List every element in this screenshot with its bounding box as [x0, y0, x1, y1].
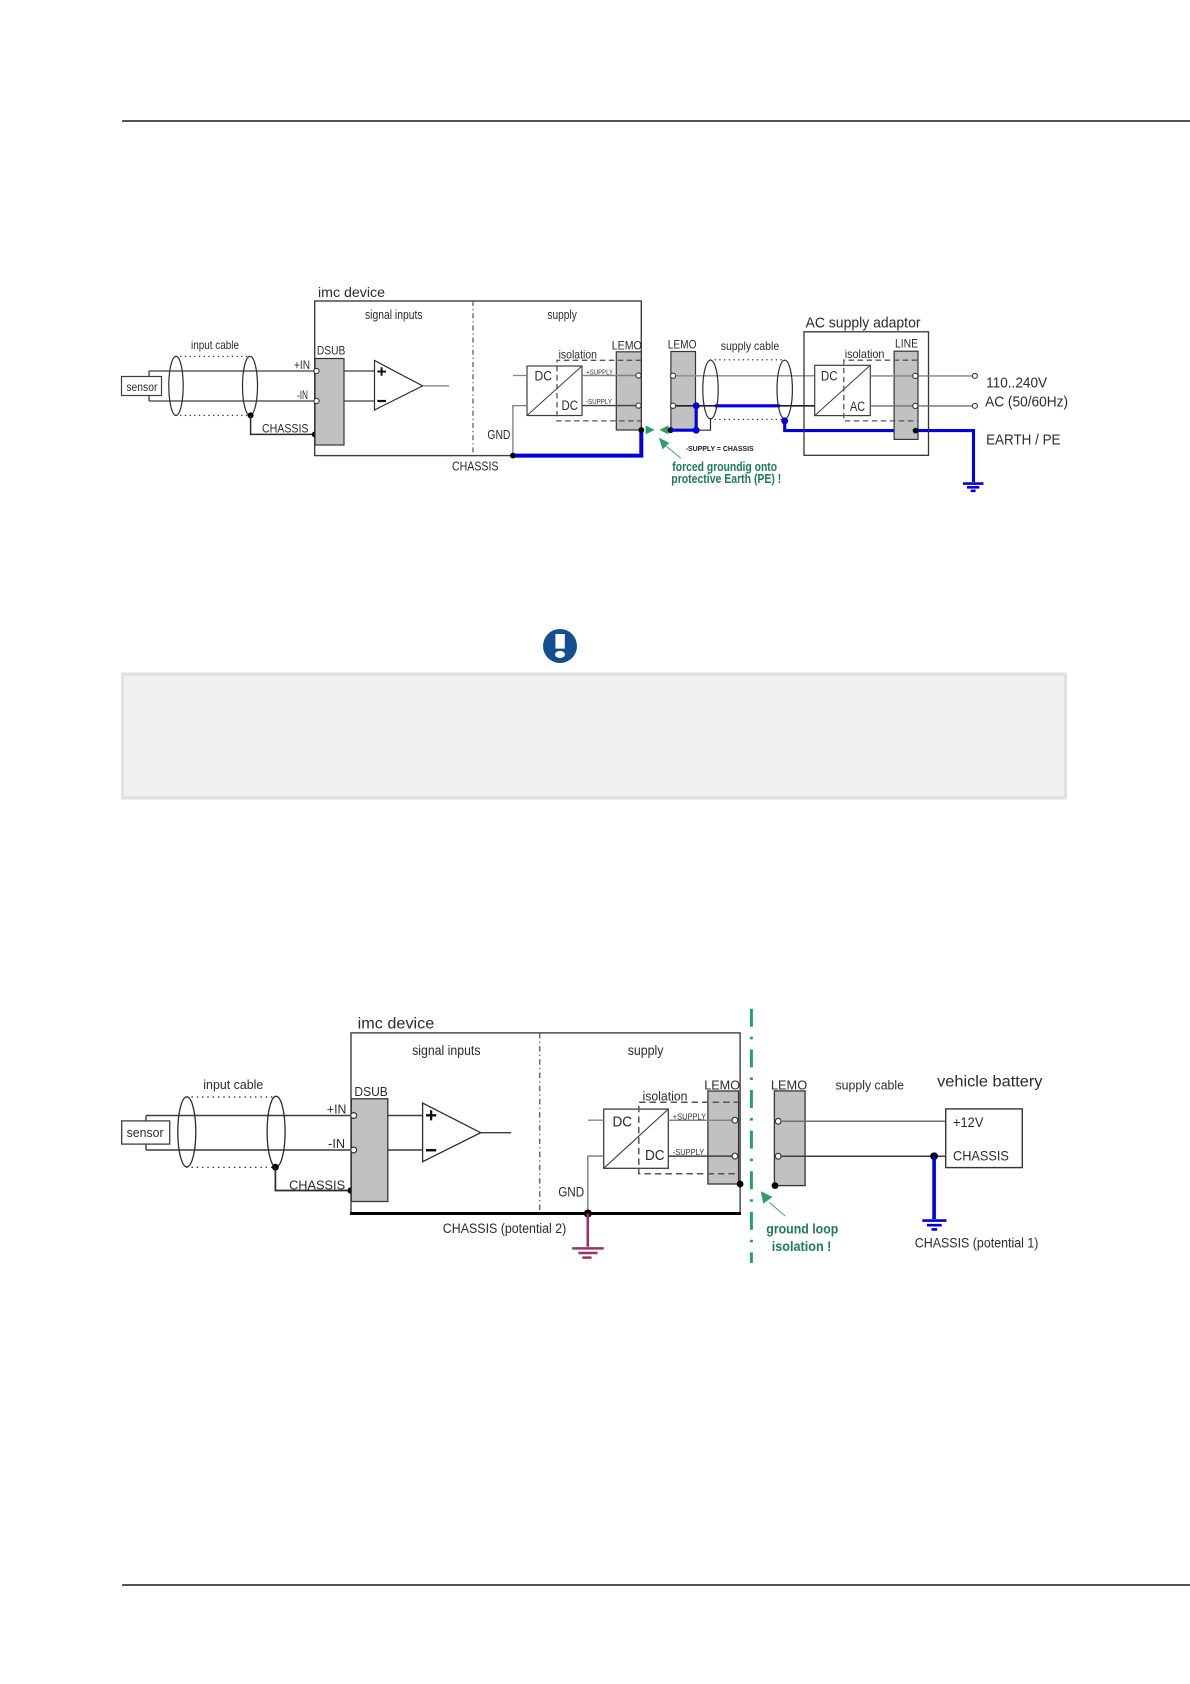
wire +IN to opamp (2) [388, 1115, 423, 1117]
supply cable dotted bottom [711, 418, 785, 420]
AC-DC converter [815, 365, 871, 415]
DSUB connector (2) [351, 1099, 388, 1202]
op-amp output wire [423, 385, 449, 387]
op-amp [375, 361, 423, 411]
svg-text:isolation: isolation [845, 347, 885, 361]
node at DSUB chassis (2) [348, 1187, 355, 1194]
pin +IN [314, 368, 319, 373]
node at LEMO cable bottom [668, 427, 674, 433]
svg-text:AC supply adaptor: AC supply adaptor [806, 316, 921, 332]
wire cable bottom [673, 405, 815, 407]
green arrow left [659, 425, 668, 434]
pin +IN (2) [351, 1113, 357, 1119]
terminal AC bottom [972, 403, 977, 408]
svg-text:GND: GND [558, 1184, 584, 1199]
LEMO connector (device 2) [708, 1091, 739, 1184]
wire -IN to opamp (2) [388, 1149, 423, 1151]
svg-text:CHASSIS: CHASSIS [953, 1148, 1009, 1164]
wire AC line bottom [870, 405, 975, 407]
terminal AC top [972, 373, 977, 378]
LEMO connector (cable) [671, 352, 696, 431]
AC-DC diagonal [815, 365, 871, 415]
svg-text:sensor: sensor [127, 1125, 165, 1140]
AC supply adaptor box [804, 332, 929, 456]
wire +SUPPLY [582, 375, 639, 377]
svg-text:EARTH / PE: EARTH / PE [986, 432, 1061, 448]
svg-text:CHASSIS (potential 1): CHASSIS (potential 1) [915, 1234, 1039, 1250]
svg-text:+SUPPLY: +SUPPLY [586, 367, 613, 376]
node on chassis wire (2) [930, 1152, 938, 1160]
pin LINE top [913, 373, 918, 378]
cable dotted top (2) [187, 1096, 276, 1098]
svg-text:LINE: LINE [895, 339, 918, 351]
pin -IN [314, 398, 319, 403]
svg-text:input cable: input cable [191, 338, 239, 352]
blue -SUPPLY segment in cable [715, 404, 780, 407]
pin -SUPPLY (2) [732, 1153, 738, 1159]
svg-text:signal inputs: signal inputs [365, 308, 423, 322]
svg-text:-IN: -IN [297, 390, 308, 402]
svg-text:-IN: -IN [328, 1136, 345, 1151]
svg-text:AC (50/60Hz): AC (50/60Hz) [985, 395, 1068, 411]
shield node [248, 412, 254, 418]
supply cable ellipse right [777, 360, 792, 419]
svg-text:110..240V: 110..240V [986, 376, 1047, 392]
svg-text:CHASSIS (potential 2): CHASSIS (potential 2) [443, 1221, 567, 1236]
blue earth path from cable [785, 421, 974, 482]
shield node (2) [272, 1164, 279, 1171]
op-amp (2) [423, 1103, 481, 1162]
svg-text:supply: supply [628, 1043, 664, 1058]
cable ellipse right (2) [267, 1096, 285, 1167]
svg-text:+SUPPLY: +SUPPLY [673, 1113, 707, 1122]
op-amp plus sign (2) [426, 1110, 436, 1120]
isolation dashed box (2) [639, 1102, 740, 1174]
wire +SUPPLY (2) [668, 1119, 735, 1121]
imc device box [315, 301, 642, 456]
pin LINE bottom [913, 403, 918, 408]
svg-text:supply: supply [547, 308, 577, 322]
DC input stub [513, 375, 527, 377]
svg-text:supply cable: supply cable [721, 339, 780, 353]
GND wire (2) [588, 1156, 604, 1213]
green isolation dash-dot line [750, 1009, 753, 1263]
pin -SUPPLY [636, 403, 641, 408]
isolation dashed box [557, 360, 641, 421]
svg-text:-SUPPLY = CHASSIS: -SUPPLY = CHASSIS [686, 444, 754, 453]
earth symbol (potential 2, magenta) [586, 1214, 589, 1247]
cable shield dotted top [176, 355, 250, 357]
blue chassis path [513, 430, 641, 456]
node at GND chassis [510, 453, 516, 459]
svg-text:supply cable: supply cable [836, 1077, 905, 1092]
svg-text:DC: DC [645, 1148, 665, 1164]
op-amp plus sign [377, 367, 386, 376]
cable dotted bottom (2) [187, 1166, 276, 1168]
op-amp minus sign [377, 400, 386, 402]
DC-DC converter (2) [604, 1109, 669, 1168]
pin cable - [671, 403, 676, 408]
wire -SUPPLY [582, 405, 639, 407]
green annotation arrow (2) [761, 1191, 773, 1204]
supply cable ellipse left [703, 360, 718, 419]
svg-text:CHASSIS: CHASSIS [262, 424, 309, 436]
sensor box (2) [122, 1121, 170, 1144]
wire -SUPPLY (2) [668, 1155, 735, 1157]
wire +12V [781, 1120, 946, 1122]
svg-text:imc device: imc device [358, 1016, 435, 1033]
DC-DC diagonal [527, 366, 582, 416]
svg-text:DC: DC [821, 368, 838, 383]
shield chassis wire [251, 415, 315, 434]
pin +SUPPLY [636, 373, 641, 378]
op-amp output wire (2) [481, 1132, 512, 1134]
svg-text:-SUPPLY: -SUPPLY [586, 397, 612, 406]
wire AC line top [870, 375, 975, 377]
chassis bottom edge (thick) [350, 1212, 741, 1215]
section divider (dash-dot) [472, 301, 474, 456]
svg-text:DSUB: DSUB [317, 346, 346, 358]
note box (empty gray) [123, 674, 1066, 798]
blue node on -SUPPLY pin [693, 402, 700, 409]
pin +SUPPLY (2) [732, 1117, 738, 1123]
pin cable + [671, 373, 676, 378]
svg-text:-SUPPLY: -SUPPLY [673, 1148, 705, 1157]
green arrow right [646, 425, 655, 434]
node at LEMO bottom (2) [737, 1181, 744, 1188]
note icon (blue circle with exclamation) [543, 629, 577, 663]
sensor wires (2) [146, 1116, 353, 1151]
pin cable - (2) [775, 1153, 781, 1159]
svg-text:DC: DC [613, 1114, 633, 1130]
svg-text:LEMO: LEMO [771, 1077, 807, 1092]
footer rule [122, 1584, 1190, 1586]
DC-DC converter [527, 366, 582, 416]
shield chassis wire (2) [275, 1167, 351, 1190]
imc device box (2) [351, 1033, 740, 1214]
svg-text:ground loop: ground loop [766, 1222, 838, 1237]
wire -IN to opamp [344, 400, 375, 402]
supply cable dotted top [711, 359, 785, 361]
svg-text:signal inputs: signal inputs [412, 1043, 481, 1058]
green annotation line [666, 446, 681, 458]
svg-text:+12V: +12V [953, 1114, 984, 1130]
node at GND chassis (2) [584, 1210, 592, 1218]
wire chassis (2) [781, 1155, 946, 1157]
vehicle battery box [946, 1109, 1023, 1168]
svg-text:+IN: +IN [327, 1102, 347, 1117]
cable shield ellipse left [169, 356, 183, 415]
wire cable top [673, 375, 815, 377]
GND wire [513, 406, 527, 456]
svg-text:protective Earth (PE) !: protective Earth (PE) ! [671, 472, 781, 486]
blue node at chassis contact [693, 427, 700, 434]
op-amp minus sign (2) [426, 1149, 436, 1152]
pin cable + (2) [775, 1118, 781, 1124]
wire +IN to opamp [344, 370, 375, 372]
svg-text:LEMO: LEMO [704, 1077, 740, 1092]
svg-text:sensor: sensor [126, 382, 157, 394]
node at LINE PE pin [913, 428, 919, 434]
green annotation arrow [659, 438, 669, 450]
svg-text:isolation: isolation [559, 347, 597, 361]
node at LEMO bottom [638, 427, 644, 433]
DSUB connector [315, 359, 344, 446]
node at LEMO cable bottom (2) [772, 1182, 779, 1189]
svg-text:AC: AC [850, 399, 865, 414]
svg-text:CHASSIS: CHASSIS [452, 460, 499, 474]
green annotation line (2) [770, 1203, 786, 1217]
svg-text:CHASSIS: CHASSIS [289, 1178, 345, 1193]
cable shield dotted bottom [176, 414, 250, 416]
svg-text:imc device: imc device [318, 285, 385, 300]
svg-text:GND: GND [487, 428, 510, 442]
blue earth wire (battery) [932, 1156, 936, 1219]
svg-text:LEMO: LEMO [668, 340, 697, 352]
section divider (2) [539, 1033, 541, 1214]
node at DSUB chassis [312, 432, 318, 438]
LEMO connector (cable 2) [774, 1091, 805, 1186]
svg-text:LEMO: LEMO [612, 340, 642, 352]
LINE connector [894, 351, 918, 439]
svg-text:isolation !: isolation ! [772, 1239, 832, 1254]
svg-text:DSUB: DSUB [354, 1084, 387, 1099]
svg-text:input cable: input cable [203, 1077, 263, 1092]
svg-text:+IN: +IN [294, 360, 310, 372]
svg-text:vehicle battery: vehicle battery [937, 1073, 1043, 1090]
DC input stub (2) [588, 1119, 604, 1121]
blue node at cable shield [781, 417, 788, 424]
sensor box [122, 377, 162, 396]
cable shield ellipse right [243, 356, 258, 415]
cable ellipse left (2) [178, 1097, 196, 1167]
sensor wires [149, 371, 316, 401]
pin -IN (2) [351, 1147, 357, 1153]
blue drop wire [671, 406, 696, 430]
earth symbol (potential 1, blue) [922, 1221, 946, 1230]
LEMO connector (device) [616, 352, 641, 430]
isolation dashed box (adaptor) [844, 360, 917, 421]
svg-text:DC: DC [562, 398, 579, 413]
svg-text:DC: DC [535, 368, 553, 383]
shield-to-chassis link [699, 418, 711, 430]
DC-DC diagonal (2) [604, 1109, 669, 1168]
earth symbol (PE) [963, 484, 984, 491]
header rule [122, 120, 1190, 122]
